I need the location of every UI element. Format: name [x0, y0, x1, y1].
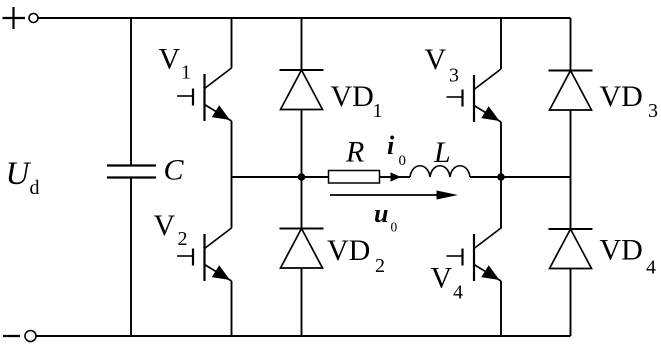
- current direction arrowhead i0: [391, 172, 402, 181]
- svg-text:1: 1: [181, 62, 191, 84]
- svg-text:4: 4: [646, 257, 656, 279]
- capacitor C plates: [107, 166, 156, 178]
- diode VD4 bottom leg wire: [570, 269, 572, 337]
- diode VD2 bottom leg wire: [301, 268, 303, 336]
- svg-text:U: U: [6, 156, 32, 192]
- wire node B to diode leg: [501, 176, 571, 178]
- svg-text:V: V: [425, 43, 447, 76]
- output voltage u0 arrow: [330, 194, 440, 196]
- diode VD1 bottom leg wire: [301, 110, 303, 178]
- wire V3 emitter to node B: [500, 122, 502, 177]
- bottom terminal circle: [25, 331, 36, 342]
- svg-text:R: R: [345, 136, 364, 169]
- transistor V4: [447, 228, 502, 281]
- svg-text:2: 2: [375, 255, 385, 277]
- svg-text:VD: VD: [327, 234, 370, 267]
- diode VD3: [549, 71, 593, 111]
- wire V4 emitter to bottom rail: [500, 281, 502, 336]
- diode VD3 bottom leg wire: [570, 110, 572, 229]
- wire inductor to node B: [470, 176, 501, 178]
- diode VD4: [549, 229, 593, 269]
- svg-text:3: 3: [648, 100, 658, 122]
- bottom rail wire: [36, 335, 571, 337]
- svg-text:VD: VD: [600, 80, 643, 113]
- wire top rail to V1: [231, 18, 233, 68]
- diode VD2 top leg wire: [301, 177, 303, 229]
- resistor R: [329, 171, 380, 184]
- plus terminal: [3, 7, 26, 29]
- capacitor C top leg wire: [130, 18, 132, 166]
- svg-text:VD: VD: [600, 234, 643, 267]
- top terminal circle: [29, 14, 38, 23]
- node B junction dot: [497, 173, 505, 181]
- svg-text:V: V: [159, 43, 181, 76]
- svg-text:1: 1: [373, 100, 383, 122]
- node A junction dot: [298, 173, 306, 181]
- svg-text:4: 4: [453, 282, 463, 304]
- svg-text:L: L: [433, 136, 451, 169]
- diode VD3 top leg wire: [570, 18, 572, 71]
- diode VD2: [280, 229, 324, 269]
- svg-text:2: 2: [178, 228, 188, 250]
- svg-text:V: V: [154, 209, 176, 242]
- minus terminal: [3, 335, 20, 337]
- capacitor C bottom leg wire: [130, 178, 132, 337]
- wire arrow to inductor: [399, 176, 410, 178]
- wire node B to V4: [500, 177, 502, 229]
- svg-text:d: d: [30, 177, 40, 199]
- transistor V2: [177, 228, 232, 281]
- svg-text:C: C: [164, 154, 185, 187]
- top rail wire: [38, 17, 571, 19]
- svg-text:3: 3: [449, 65, 459, 87]
- svg-text:VD: VD: [331, 80, 374, 113]
- svg-text:0: 0: [399, 153, 407, 169]
- diode VD1 top leg wire: [301, 18, 303, 70]
- wire top rail to V3: [500, 18, 502, 69]
- transistor V1: [177, 68, 232, 121]
- transistor V3: [447, 69, 502, 122]
- svg-text:u: u: [374, 199, 388, 228]
- wire V2 emitter to bottom rail: [231, 281, 233, 336]
- svg-text:i: i: [387, 131, 395, 160]
- wire midpoint to V2: [231, 177, 233, 228]
- svg-text:V: V: [431, 262, 453, 295]
- wire node to resistor: [302, 176, 329, 178]
- wire resistor to current arrow: [380, 176, 392, 178]
- wire V1 emitter to midpoint: [231, 121, 233, 177]
- svg-text:0: 0: [391, 220, 398, 235]
- diode VD1: [280, 70, 324, 110]
- inductor L: [410, 166, 470, 177]
- wire left midpoint to node: [232, 176, 302, 178]
